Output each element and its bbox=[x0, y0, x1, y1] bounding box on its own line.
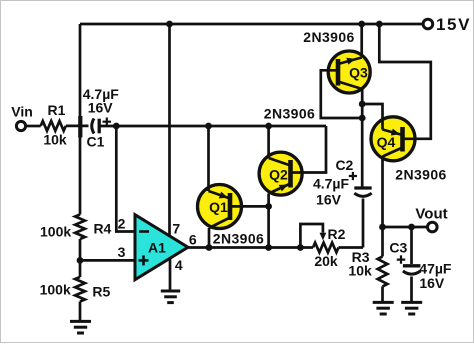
svg-text:C3: C3 bbox=[389, 239, 407, 255]
svg-text:7: 7 bbox=[172, 221, 180, 237]
svg-text:2N3906: 2N3906 bbox=[395, 166, 446, 182]
svg-text:6: 6 bbox=[189, 232, 197, 248]
svg-text:Vout: Vout bbox=[415, 206, 447, 223]
svg-text:Vin: Vin bbox=[11, 104, 33, 120]
svg-text:C1: C1 bbox=[87, 134, 105, 150]
svg-text:2N3906: 2N3906 bbox=[303, 29, 354, 45]
svg-text:20k: 20k bbox=[314, 253, 338, 269]
svg-text:A1: A1 bbox=[148, 239, 166, 255]
svg-text:Q4: Q4 bbox=[377, 134, 396, 150]
svg-text:4: 4 bbox=[175, 257, 183, 273]
svg-text:R4: R4 bbox=[93, 221, 111, 237]
svg-text:10k: 10k bbox=[348, 263, 372, 279]
svg-text:2N3906: 2N3906 bbox=[213, 231, 264, 247]
svg-text:100k: 100k bbox=[40, 224, 71, 240]
svg-text:10k: 10k bbox=[43, 132, 67, 148]
svg-text:15V: 15V bbox=[436, 15, 471, 34]
svg-text:100k: 100k bbox=[40, 282, 71, 298]
svg-text:16V: 16V bbox=[419, 275, 445, 291]
svg-text:R1: R1 bbox=[48, 102, 66, 118]
svg-text:2N3906: 2N3906 bbox=[264, 106, 315, 122]
svg-text:C2: C2 bbox=[335, 157, 353, 173]
svg-text:Q3: Q3 bbox=[349, 64, 368, 80]
svg-text:2: 2 bbox=[118, 215, 126, 231]
svg-text:4.7µF: 4.7µF bbox=[313, 176, 350, 192]
svg-text:16V: 16V bbox=[316, 192, 342, 208]
svg-text:16V: 16V bbox=[88, 100, 114, 116]
svg-text:Q2: Q2 bbox=[269, 166, 288, 182]
svg-text:3: 3 bbox=[118, 244, 126, 260]
svg-text:R5: R5 bbox=[92, 284, 110, 300]
svg-text:R2: R2 bbox=[328, 226, 346, 242]
svg-text:Q1: Q1 bbox=[209, 199, 228, 215]
